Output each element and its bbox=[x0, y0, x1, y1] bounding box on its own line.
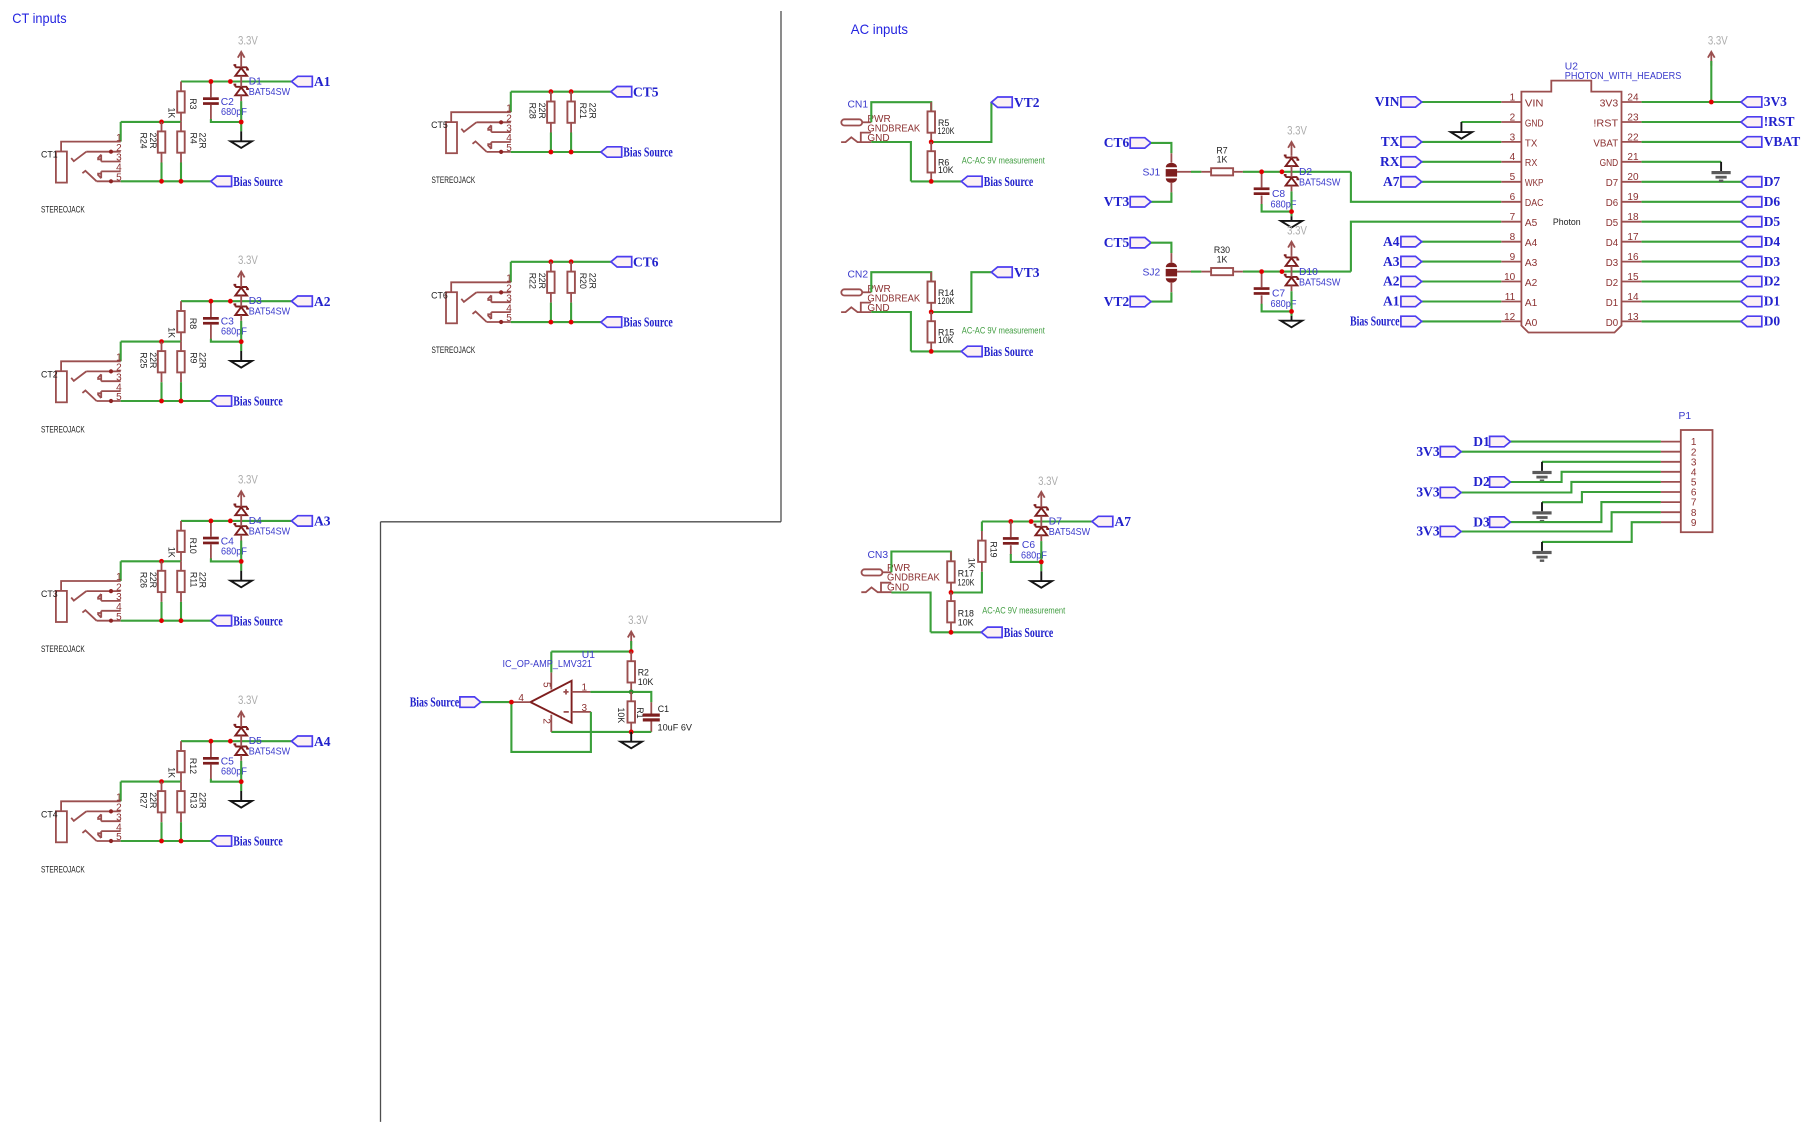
svg-text:STEREOJACK: STEREOJACK bbox=[432, 345, 476, 355]
svg-text:D3: D3 bbox=[1764, 254, 1781, 269]
resistor R6 10K bbox=[928, 142, 936, 181]
svg-text:22: 22 bbox=[1627, 132, 1639, 143]
svg-text:R25: R25 bbox=[138, 352, 148, 368]
svg-text:A2: A2 bbox=[1525, 278, 1538, 289]
svg-text:VBAT: VBAT bbox=[1593, 138, 1618, 149]
junction dot C6/D7 bottom bbox=[1039, 560, 1044, 565]
svg-text:18: 18 bbox=[1627, 212, 1639, 223]
flag D7 (U2 right) bbox=[1741, 174, 1780, 189]
svg-text:Bias Source: Bias Source bbox=[1004, 625, 1054, 640]
section divider vertical (top) bbox=[780, 11, 782, 522]
resistor R4 22R bbox=[177, 122, 185, 181]
ground (D10) bbox=[1281, 316, 1302, 327]
label R9 22R bbox=[189, 352, 208, 368]
svg-text:SJ2: SJ2 bbox=[1143, 267, 1161, 278]
wire net Bias Source (bottom) bbox=[121, 840, 211, 842]
svg-text:D7: D7 bbox=[1764, 174, 1781, 189]
stereojack CT4 bbox=[41, 793, 122, 844]
svg-text:D1: D1 bbox=[1764, 294, 1781, 309]
wire CT5 to SJ2 bbox=[1151, 243, 1171, 253]
svg-text:10: 10 bbox=[1504, 272, 1516, 283]
label R15 10K bbox=[938, 327, 954, 345]
label R28 22R bbox=[528, 103, 548, 119]
label R1 10K bbox=[616, 707, 645, 723]
resistor R8 1K bbox=[177, 301, 185, 341]
svg-text:C1: C1 bbox=[658, 704, 669, 714]
svg-text:R26: R26 bbox=[138, 572, 148, 588]
svg-text:1K: 1K bbox=[167, 547, 177, 558]
junction dot supply node bbox=[629, 649, 634, 654]
wire U2 pin 18 to D5 bbox=[1642, 221, 1741, 223]
svg-text:VT3: VT3 bbox=[1104, 194, 1130, 209]
wire U2 pin 23 to !RST bbox=[1642, 121, 1741, 123]
diode D5 BAT54SW bbox=[234, 725, 249, 761]
junction dots Bias Source bbox=[549, 320, 574, 325]
svg-text:STEREOJACK: STEREOJACK bbox=[432, 175, 476, 185]
junction dots net A7 bbox=[1008, 519, 1033, 524]
svg-text:12: 12 bbox=[1504, 312, 1516, 323]
U2 pin names bbox=[1525, 98, 1619, 328]
flag Bias Source (U2 left) bbox=[1350, 314, 1422, 329]
svg-text:A4: A4 bbox=[314, 734, 331, 749]
ground (CT2 block) bbox=[231, 351, 252, 368]
svg-text:TX: TX bbox=[1381, 134, 1400, 149]
supply 3.3V (CT3 block) bbox=[238, 473, 259, 505]
svg-text:R8: R8 bbox=[188, 318, 198, 329]
power jack CN1 bbox=[841, 114, 920, 144]
svg-text:4: 4 bbox=[518, 693, 524, 704]
svg-text:20: 20 bbox=[1627, 172, 1639, 183]
wire net Bias Source (bottom) bbox=[121, 620, 211, 622]
svg-text:680pF: 680pF bbox=[221, 107, 247, 118]
IC U2 PHOTON_WITH_HEADERS body bbox=[1521, 81, 1621, 333]
svg-text:D2: D2 bbox=[1299, 167, 1312, 178]
svg-text:Bias Source: Bias Source bbox=[984, 344, 1034, 359]
svg-text:WKP: WKP bbox=[1525, 178, 1544, 189]
svg-text:D2: D2 bbox=[1764, 274, 1781, 289]
flag CT6 bbox=[1104, 135, 1151, 150]
junction dot mid node bbox=[159, 779, 164, 784]
svg-text:A5: A5 bbox=[1525, 218, 1538, 229]
svg-text:120K: 120K bbox=[938, 126, 955, 136]
svg-text:Bias Source: Bias Source bbox=[233, 174, 282, 189]
junction dot 3V3 bbox=[1709, 100, 1714, 105]
svg-text:A3: A3 bbox=[1383, 254, 1400, 269]
svg-text:680pF: 680pF bbox=[221, 767, 247, 778]
label R5 120K bbox=[938, 118, 955, 136]
wire diode node to U2 bbox=[1351, 172, 1501, 202]
svg-text:10K: 10K bbox=[938, 335, 954, 345]
svg-text:C6: C6 bbox=[1022, 540, 1035, 551]
diode D7 BAT54SW bbox=[1034, 505, 1049, 541]
svg-text:R24: R24 bbox=[138, 133, 148, 149]
flag A3 bbox=[292, 514, 331, 529]
wire A3 to U2 pin 9 bbox=[1422, 261, 1502, 263]
label C3 680pF bbox=[221, 317, 247, 338]
junction dot gnd rail bbox=[629, 730, 634, 735]
svg-text:22R: 22R bbox=[537, 103, 547, 119]
svg-text:3.3V: 3.3V bbox=[1708, 33, 1728, 47]
svg-text:RX: RX bbox=[1525, 158, 1538, 169]
label C6 680pF bbox=[1021, 540, 1047, 562]
label R2 10K bbox=[638, 667, 654, 687]
svg-text:A1: A1 bbox=[1383, 294, 1400, 309]
connector P1 body bbox=[1681, 430, 1713, 532]
wire PWR to R17 bbox=[891, 552, 951, 573]
earth ground (P1 pin9) bbox=[1532, 542, 1551, 562]
resistor R25 22R bbox=[158, 342, 166, 401]
svg-text:22R: 22R bbox=[148, 352, 158, 368]
svg-text:VIN: VIN bbox=[1375, 94, 1400, 109]
svg-text:10K: 10K bbox=[958, 618, 974, 628]
svg-text:16: 16 bbox=[1627, 252, 1639, 263]
svg-text:13: 13 bbox=[1627, 312, 1639, 323]
wire net CT6 (top) bbox=[511, 261, 611, 263]
wire diode bottom to ground node bbox=[240, 761, 242, 791]
wire TX to U2 pin 3 bbox=[1422, 141, 1502, 143]
svg-text:CN1: CN1 bbox=[848, 100, 869, 111]
wire D2 bottom bbox=[1290, 191, 1292, 216]
wire SJ1 to VT3 bbox=[1151, 192, 1171, 201]
svg-text:Photon: Photon bbox=[1553, 217, 1581, 227]
wire pin1 up to top net bbox=[510, 262, 512, 283]
svg-text:10K: 10K bbox=[938, 165, 954, 175]
flag Bias Source bbox=[961, 174, 1033, 189]
label R11 22R bbox=[189, 572, 208, 588]
svg-text:D3: D3 bbox=[249, 296, 262, 307]
svg-text:1: 1 bbox=[582, 683, 588, 694]
svg-text:A4: A4 bbox=[1525, 238, 1538, 249]
svg-text:VT2: VT2 bbox=[1014, 95, 1040, 110]
svg-text:AC-AC 9V measurement: AC-AC 9V measurement bbox=[982, 605, 1065, 615]
flag VBAT (U2 right) bbox=[1741, 134, 1800, 149]
svg-text:VBAT: VBAT bbox=[1764, 134, 1801, 149]
svg-text:3V3: 3V3 bbox=[1416, 524, 1439, 539]
svg-text:A1: A1 bbox=[314, 74, 331, 89]
wire CT6 to SJ1 bbox=[1151, 143, 1171, 153]
supply 3.3V (U2) bbox=[1708, 33, 1728, 102]
supply 3.3V (U1) bbox=[628, 613, 649, 652]
resistor R20 22R bbox=[567, 262, 575, 322]
svg-text:3.3V: 3.3V bbox=[238, 693, 258, 707]
svg-text:R10: R10 bbox=[188, 538, 198, 554]
junction dot R17/R18/R19 bbox=[949, 590, 954, 595]
flag D4 (U2 right) bbox=[1741, 234, 1780, 249]
junction dots net A4 bbox=[209, 739, 244, 784]
svg-text:VT3: VT3 bbox=[1014, 265, 1040, 280]
flag A2 (U2 left) bbox=[1383, 274, 1422, 289]
capacitor C5 680pF bbox=[203, 741, 241, 782]
supply 3.3V (D7) bbox=[1038, 474, 1059, 506]
resistor R22 22R bbox=[547, 262, 555, 322]
svg-text:STEREOJACK: STEREOJACK bbox=[41, 424, 85, 434]
supply 3.3V (D2) bbox=[1287, 124, 1307, 156]
svg-text:A7: A7 bbox=[1383, 174, 1400, 189]
label U1 IC_OP-AMP_LMV321 bbox=[503, 650, 596, 670]
supply 3.3V (CT4 block) bbox=[238, 693, 259, 725]
flag Bias Source (CN3) bbox=[981, 625, 1053, 640]
svg-text:CT5: CT5 bbox=[633, 84, 659, 99]
svg-text:A2: A2 bbox=[314, 294, 331, 309]
label C8 680pF bbox=[1271, 189, 1297, 211]
svg-text:CT1: CT1 bbox=[41, 150, 58, 160]
label R20 22R bbox=[578, 273, 598, 289]
svg-text:P1: P1 bbox=[1679, 411, 1692, 422]
capacitor C4 680pF bbox=[203, 521, 241, 562]
flag VT3 bbox=[991, 265, 1039, 280]
flag CT5 bbox=[1104, 235, 1151, 250]
svg-text:GND: GND bbox=[1600, 158, 1619, 169]
flag A1 (U2 left) bbox=[1383, 294, 1422, 309]
junction dots net A2 bbox=[209, 299, 244, 344]
flag A3 (U2 left) bbox=[1383, 254, 1422, 269]
svg-text:Bias Source: Bias Source bbox=[984, 174, 1034, 189]
supply 3.3V (D10) bbox=[1287, 223, 1307, 255]
svg-text:11: 11 bbox=[1505, 292, 1516, 303]
svg-text:680pF: 680pF bbox=[1021, 551, 1047, 562]
label R8 1K bbox=[167, 318, 199, 338]
svg-text:R21: R21 bbox=[578, 103, 588, 119]
svg-text:D7: D7 bbox=[1049, 516, 1062, 527]
svg-text:1: 1 bbox=[1510, 92, 1516, 103]
section divider vertical (bottom) bbox=[380, 522, 382, 1122]
svg-text:R2: R2 bbox=[638, 667, 649, 677]
wire U2 pin 17 to D4 bbox=[1642, 241, 1741, 243]
flag D0 (U2 right) bbox=[1741, 314, 1780, 329]
ground (U1) bbox=[621, 732, 642, 748]
resistor R10 1K bbox=[177, 521, 185, 561]
svg-text:BAT54SW: BAT54SW bbox=[249, 307, 291, 318]
wire 3V3 to P1 pin2 bbox=[1461, 451, 1661, 453]
label R12 1K bbox=[167, 758, 199, 778]
wire mid node bbox=[121, 341, 181, 343]
stereojack CT3 bbox=[41, 572, 122, 623]
label U2 PHOTON_WITH_HEADERS bbox=[1565, 62, 1682, 83]
svg-text:3.3V: 3.3V bbox=[238, 253, 258, 267]
svg-text:1K: 1K bbox=[167, 327, 177, 338]
flag D2 (P1) bbox=[1473, 474, 1510, 489]
wire pin1 to mid node bbox=[120, 782, 122, 802]
wire U2 pin 14 to D1 bbox=[1642, 300, 1741, 302]
wire Bias Source to U2 pin 12 bbox=[1422, 320, 1502, 322]
svg-text:22R: 22R bbox=[198, 352, 208, 368]
svg-text:22R: 22R bbox=[198, 792, 208, 808]
svg-text:4: 4 bbox=[1510, 152, 1516, 163]
label R4 22R bbox=[189, 133, 208, 149]
diode D3 BAT54SW bbox=[234, 285, 249, 321]
svg-text:CT6: CT6 bbox=[1104, 135, 1130, 150]
ground (D7) bbox=[1031, 571, 1052, 588]
wire RX to U2 pin 4 bbox=[1422, 161, 1502, 163]
label R22 22R bbox=[528, 273, 548, 289]
capacitor C7 680pF bbox=[1254, 272, 1292, 312]
flag CT6 bbox=[611, 254, 659, 269]
earth ground (U2 pin21) bbox=[1712, 162, 1731, 182]
svg-text:VT2: VT2 bbox=[1104, 294, 1130, 309]
diode D4 BAT54SW bbox=[234, 505, 249, 541]
svg-text:3.3V: 3.3V bbox=[238, 33, 258, 47]
svg-text:3.3V: 3.3V bbox=[628, 613, 648, 627]
wire pin1 to mid node bbox=[120, 122, 122, 142]
junction dots Bias Source net bbox=[159, 618, 183, 623]
svg-text:5: 5 bbox=[1510, 172, 1516, 183]
svg-text:R28: R28 bbox=[528, 103, 538, 119]
svg-text:120K: 120K bbox=[958, 577, 975, 587]
svg-text:Bias Source: Bias Source bbox=[233, 834, 282, 849]
wire op-amp top supply rail bbox=[551, 651, 631, 653]
svg-text:CT2: CT2 bbox=[41, 369, 58, 379]
label R21 22R bbox=[578, 103, 598, 119]
resistor R18 10K bbox=[947, 593, 955, 633]
svg-text:1K: 1K bbox=[1217, 254, 1228, 264]
flag Bias Source bbox=[961, 344, 1033, 359]
resistor R30 1K bbox=[1201, 268, 1243, 275]
label R18 10K bbox=[958, 609, 974, 628]
label C2 680pF bbox=[221, 97, 247, 118]
flag VT2 bbox=[1104, 294, 1151, 309]
svg-text:22R: 22R bbox=[148, 572, 158, 588]
resistor R24 22R bbox=[158, 122, 166, 181]
svg-text:D1: D1 bbox=[249, 76, 262, 87]
svg-text:680pF: 680pF bbox=[221, 546, 247, 557]
svg-text:STEREOJACK: STEREOJACK bbox=[41, 864, 85, 874]
svg-text:9: 9 bbox=[1691, 518, 1697, 529]
wire GND net (CN3) bbox=[891, 593, 930, 633]
wire A4 to U2 pin 8 bbox=[1422, 241, 1502, 243]
svg-text:STEREOJACK: STEREOJACK bbox=[41, 644, 85, 654]
power jack CN2 bbox=[841, 284, 920, 314]
solder jumper SJ1 bbox=[1166, 153, 1177, 192]
wire net CT5 (top) bbox=[511, 91, 611, 93]
svg-text:R11: R11 bbox=[189, 572, 199, 588]
wire net Bias Source bbox=[511, 151, 601, 153]
stereojack CT5 bbox=[431, 103, 512, 154]
svg-text:A1: A1 bbox=[1525, 298, 1538, 309]
svg-text:3V3: 3V3 bbox=[1416, 485, 1439, 500]
flag D3 (P1) bbox=[1473, 514, 1510, 529]
wire diode bottom to ground node bbox=[240, 321, 242, 351]
svg-text:R27: R27 bbox=[138, 792, 148, 808]
svg-text:GND: GND bbox=[1525, 118, 1544, 129]
svg-text:5: 5 bbox=[541, 682, 552, 688]
diode D2 BAT54SW bbox=[1284, 155, 1299, 191]
label R30 1K bbox=[1214, 245, 1230, 264]
svg-text:3.3V: 3.3V bbox=[1287, 223, 1307, 237]
resistor R1 10K bbox=[628, 692, 636, 732]
junction dots Bias Source net bbox=[159, 399, 183, 404]
svg-text:CT6: CT6 bbox=[633, 254, 659, 269]
section divider horizontal bbox=[381, 521, 782, 523]
svg-text:3: 3 bbox=[582, 703, 588, 714]
svg-text:19: 19 bbox=[1627, 192, 1639, 203]
flag Bias Source (op-amp output) bbox=[410, 695, 481, 710]
wire mid node bbox=[121, 560, 181, 562]
svg-text:!RST: !RST bbox=[1764, 114, 1795, 129]
wire pin5 to supply rail bbox=[550, 652, 552, 673]
junction dots CT5 net bbox=[549, 89, 574, 94]
svg-text:R22: R22 bbox=[528, 273, 538, 289]
flag D3 (U2 right) bbox=[1741, 254, 1780, 269]
svg-text:22R: 22R bbox=[588, 103, 598, 119]
wire diode node to U2 bbox=[1351, 222, 1501, 272]
svg-text:15: 15 bbox=[1627, 272, 1639, 283]
svg-text:D4: D4 bbox=[1606, 238, 1619, 249]
wire U2 pin 22 to VBAT bbox=[1642, 141, 1741, 143]
flag A1 bbox=[292, 74, 331, 89]
label D7 BAT54SW bbox=[1049, 516, 1091, 538]
svg-text:Bias Source: Bias Source bbox=[233, 394, 282, 409]
ground (CT1 block) bbox=[231, 131, 252, 148]
svg-text:3.3V: 3.3V bbox=[1287, 124, 1307, 138]
flag A2 bbox=[292, 294, 331, 309]
flag VT3 bbox=[1104, 194, 1151, 209]
svg-text:9: 9 bbox=[1510, 252, 1516, 263]
wire feedback loop pin3 bbox=[511, 702, 591, 752]
capacitor C1 10uF bbox=[643, 702, 660, 732]
flag 3V3 (U2 right) bbox=[1741, 94, 1787, 109]
svg-text:CT6: CT6 bbox=[431, 290, 448, 300]
wire A7 to U2 pin 5 bbox=[1422, 181, 1502, 183]
wire diode bottom to ground node bbox=[240, 541, 242, 571]
svg-text:14: 14 bbox=[1627, 292, 1639, 303]
svg-text:A2: A2 bbox=[1383, 274, 1400, 289]
svg-text:BAT54SW: BAT54SW bbox=[1299, 277, 1341, 288]
U2 pin stubs and numbers bbox=[1501, 92, 1641, 322]
label C1 10uF 6V bbox=[658, 704, 693, 732]
ground (U2 pin2) bbox=[1451, 122, 1472, 139]
flag 3V3 (P1 pin2) bbox=[1416, 444, 1461, 459]
svg-text:CT inputs: CT inputs bbox=[12, 10, 66, 26]
flag CT5 bbox=[611, 84, 659, 99]
junction dot mid node bbox=[159, 120, 164, 125]
svg-text:AC-AC 9V measurement: AC-AC 9V measurement bbox=[962, 155, 1045, 165]
svg-text:VIN: VIN bbox=[1525, 98, 1544, 109]
flag D1 (U2 right) bbox=[1741, 294, 1780, 309]
flag TX (U2 left) bbox=[1381, 134, 1422, 149]
op-amp U1 triangle bbox=[511, 672, 591, 732]
wire VIN to U2 pin 1 bbox=[1422, 101, 1502, 103]
svg-text:A7: A7 bbox=[1115, 514, 1132, 529]
capacitor C2 680pF bbox=[203, 82, 241, 123]
svg-text:D7: D7 bbox=[1606, 178, 1619, 189]
flag D6 (U2 right) bbox=[1741, 194, 1780, 209]
junction dots Bias Source net bbox=[159, 839, 183, 844]
svg-text:A0: A0 bbox=[1525, 318, 1538, 329]
resistor R27 22R bbox=[158, 782, 166, 841]
power jack CN3 bbox=[861, 563, 940, 593]
wire SJ1 right pin bbox=[1177, 171, 1201, 173]
resistor R17 120K bbox=[947, 552, 955, 593]
svg-text:R4: R4 bbox=[189, 133, 199, 144]
svg-text:TX: TX bbox=[1525, 138, 1538, 149]
resistor R5 120K bbox=[928, 102, 936, 142]
wire net A1 (top) bbox=[181, 80, 292, 82]
junction dots Bias Source bbox=[549, 150, 574, 155]
label C7 680pF bbox=[1271, 289, 1297, 311]
wire net Bias Source (bottom) bbox=[121, 180, 211, 182]
junction dot mid node bbox=[159, 339, 164, 344]
svg-text:1K: 1K bbox=[167, 108, 177, 119]
svg-text:D5: D5 bbox=[1606, 218, 1619, 229]
wire Bias Source net (CN3) bbox=[931, 631, 982, 633]
svg-text:21: 21 bbox=[1627, 152, 1639, 163]
wire A2 to U2 pin 10 bbox=[1422, 280, 1502, 282]
svg-text:3V3: 3V3 bbox=[1416, 444, 1439, 459]
earth ground (P1 pin3) bbox=[1532, 462, 1551, 482]
capacitor C6 680pF bbox=[1003, 522, 1041, 562]
resistor R21 22R bbox=[567, 92, 575, 152]
svg-text:3.3V: 3.3V bbox=[238, 473, 258, 487]
